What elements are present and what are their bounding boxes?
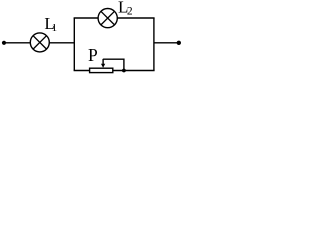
terminal dot left <box>2 41 6 45</box>
rheostat wiper arrow <box>101 59 105 68</box>
label L2 <box>118 0 133 18</box>
wire left vertical branch <box>73 18 75 71</box>
svg-text:2: 2 <box>127 6 133 18</box>
junction dot wiper tap <box>122 69 126 73</box>
label L1 <box>44 14 57 34</box>
wire wiper to bottom junction <box>103 59 124 70</box>
wire left terminal to lamp L1 <box>4 42 30 44</box>
rheostat P body <box>90 68 113 72</box>
wire bottom branch <box>74 70 155 72</box>
svg-text:P: P <box>88 45 98 65</box>
wire right junction to right terminal <box>154 42 179 44</box>
lamp L2 <box>98 9 117 28</box>
wire top branch left segment <box>74 17 99 19</box>
svg-text:1: 1 <box>52 22 58 34</box>
wire lamp L1 to left junction <box>49 42 75 44</box>
terminal dot right <box>177 41 181 45</box>
wire right vertical branch <box>153 18 155 71</box>
wire top branch right segment <box>117 17 154 19</box>
lamp L1 <box>30 33 49 52</box>
